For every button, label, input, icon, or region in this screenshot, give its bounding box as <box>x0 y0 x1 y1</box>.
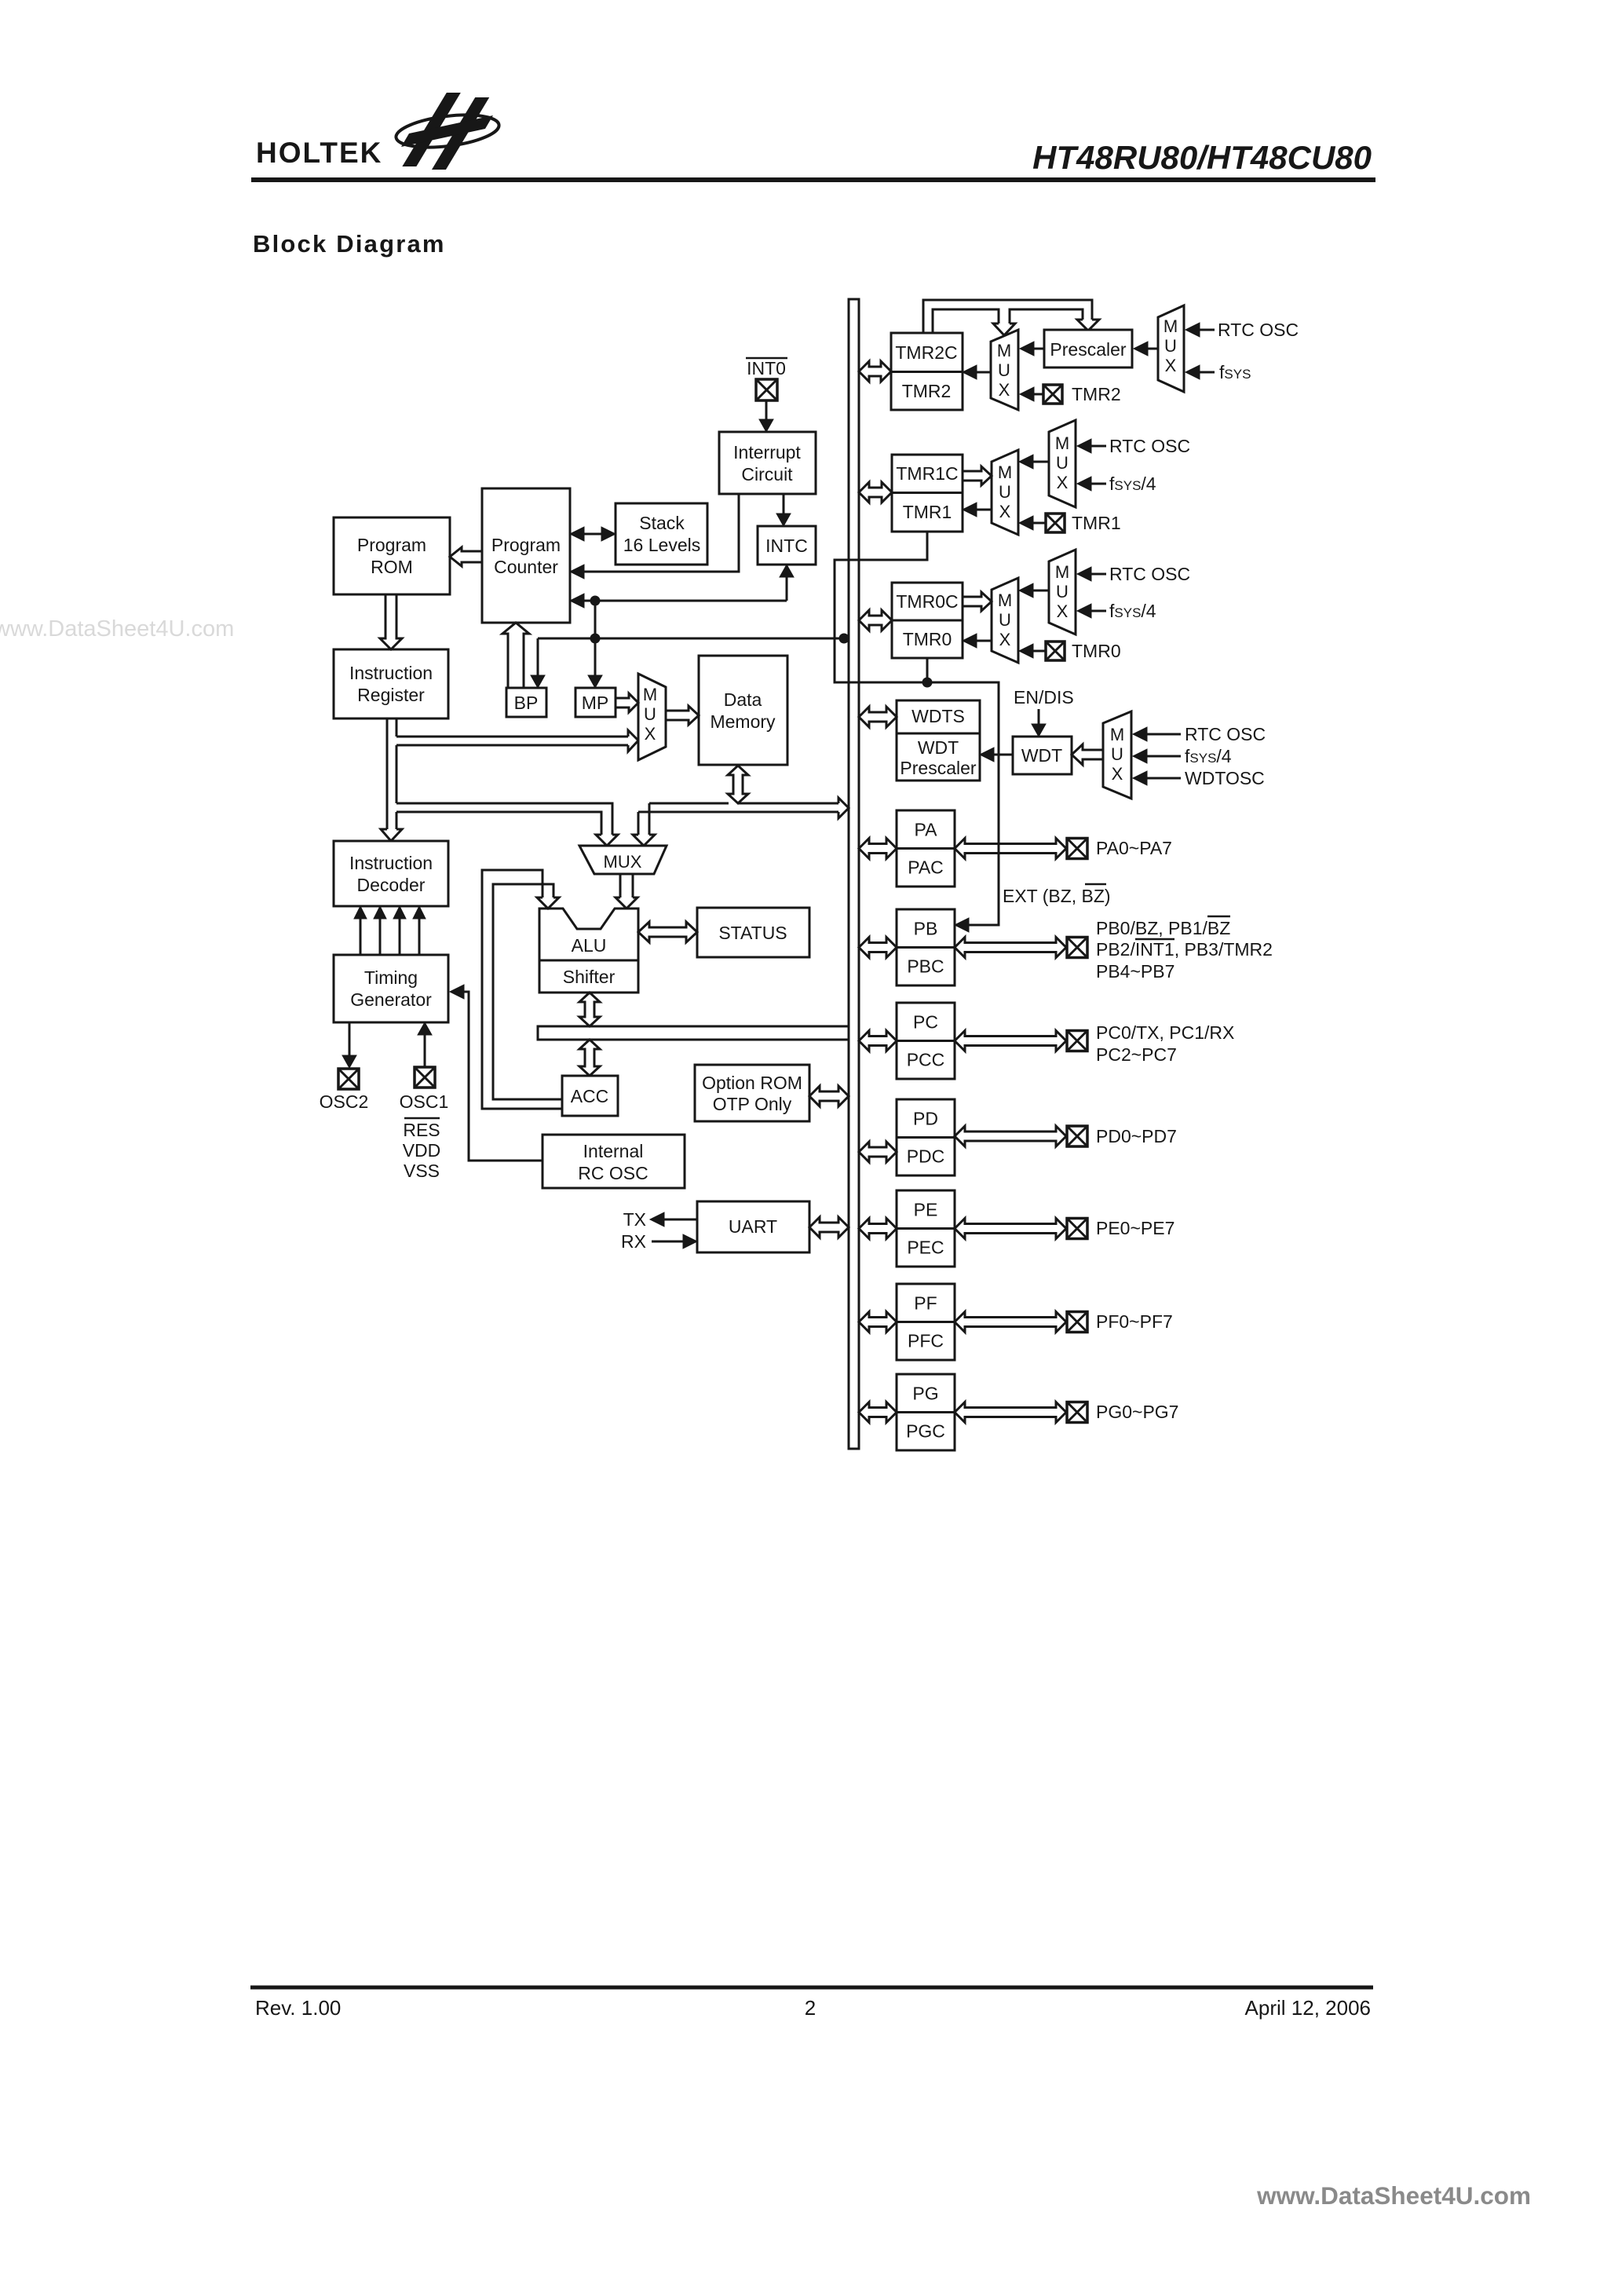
junction dot EXT <box>922 678 933 688</box>
svg-text:PC: PC <box>913 1012 938 1033</box>
pin PE0~PE7 <box>1067 1219 1087 1239</box>
svg-text:TMR0: TMR0 <box>1072 641 1121 661</box>
internal bus bar <box>538 1026 849 1040</box>
svg-text:WDT: WDT <box>918 737 959 758</box>
junction dot at bus <box>839 634 849 644</box>
svg-text:X: X <box>1112 764 1123 784</box>
svg-text:U: U <box>1111 744 1123 764</box>
block WDT <box>1013 737 1072 774</box>
svg-text:U: U <box>999 482 1011 502</box>
svg-text:OSC1: OSC1 <box>400 1091 449 1112</box>
arrow internal bus bar to ACC <box>579 1040 600 1076</box>
pin TMR2 <box>1043 385 1062 404</box>
register PB/PBC <box>897 909 955 985</box>
register TMR0C/TMR0 <box>892 583 963 658</box>
svg-text:PB2/INT1, PB3/TMR2: PB2/INT1, PB3/TMR2 <box>1096 939 1273 960</box>
input RTC OSC to timer-2 clock MUX <box>1199 329 1215 331</box>
block Prescaler <box>1044 330 1132 367</box>
svg-text:X: X <box>999 502 1011 521</box>
arrow Shifter to internal bus bar <box>579 993 600 1026</box>
arrow ALU to STATUS (bidirectional) <box>638 922 697 942</box>
bus arrow to TMR0C <box>859 610 892 631</box>
svg-text:WDTOSC: WDTOSC <box>1185 768 1265 788</box>
svg-text:RES: RES <box>403 1120 440 1140</box>
svg-text:Register: Register <box>357 685 425 705</box>
svg-text:X: X <box>645 724 656 744</box>
svg-text:Instruction: Instruction <box>349 853 433 873</box>
svg-text:16 Levels: 16 Levels <box>623 535 700 555</box>
wire buffer line to bus <box>538 601 849 638</box>
wire UART TX <box>664 1219 697 1221</box>
block Interrupt Circuit <box>719 432 816 494</box>
open arrowhead into Instruction Decoder <box>381 829 402 841</box>
svg-text:PDC: PDC <box>907 1146 945 1167</box>
svg-text:M: M <box>1164 316 1178 336</box>
block Instruction Decoder <box>334 841 448 906</box>
svg-text:Decoder: Decoder <box>357 875 426 895</box>
svg-text:www.DataSheet4U.com: www.DataSheet4U.com <box>1256 2181 1531 2210</box>
wire MUX to TMR2 <box>976 371 991 374</box>
svg-text:M: M <box>1110 725 1124 744</box>
svg-text:PEC: PEC <box>907 1238 944 1258</box>
overline PB2/INT1 <box>1135 938 1174 941</box>
system data bus (vertical double line) <box>849 299 859 1449</box>
open arrowhead ACC feedback into ALU <box>537 898 559 909</box>
header rule <box>251 177 1375 182</box>
mux U4 timer-1 clock MUX <box>1049 420 1076 507</box>
open arrowhead into Prescaler <box>1077 320 1099 331</box>
svg-text:TMR1C: TMR1C <box>896 463 958 484</box>
open arrowhead into timer-2 MUX <box>993 324 1015 335</box>
svg-text:PF0~PF7: PF0~PF7 <box>1096 1311 1173 1332</box>
svg-text:Generator: Generator <box>350 989 432 1010</box>
svg-text:fSYS/4: fSYS/4 <box>1185 746 1232 766</box>
svg-text:Rev. 1.00: Rev. 1.00 <box>255 1996 341 2020</box>
svg-text:HOLTEK: HOLTEK <box>256 137 382 169</box>
pin PD0~PD7 <box>1067 1126 1087 1146</box>
input fSYS/4 to timer-0 clock MUX <box>1091 610 1106 612</box>
mux U6 timer-0 clock MUX <box>1049 550 1076 634</box>
pin TMR0 <box>1046 642 1065 660</box>
svg-text:Stack: Stack <box>639 513 685 533</box>
svg-text:Prescaler: Prescaler <box>1050 339 1126 360</box>
pin INT0 <box>756 379 777 400</box>
svg-text:PG0~PG7: PG0~PG7 <box>1096 1402 1178 1422</box>
bus arrow to TMR1C <box>859 482 892 503</box>
svg-text:X: X <box>999 380 1010 400</box>
pin PC0~PC7 <box>1067 1031 1087 1051</box>
arrow MUX to ALU <box>620 874 633 898</box>
svg-text:PB0/BZ, PB1/BZ: PB0/BZ, PB1/BZ <box>1096 918 1230 938</box>
arrowhead EXT into PB <box>955 918 969 932</box>
wire Prescaler to MUX <box>1033 348 1044 350</box>
open arrowhead into data memory MUX <box>628 730 638 751</box>
footer rule <box>250 1986 1373 1990</box>
register PA/PAC <box>897 810 955 887</box>
wire MUX to TMR1 <box>977 509 992 511</box>
svg-text:PC0/TX, PC1/RX: PC0/TX, PC1/RX <box>1096 1022 1234 1043</box>
block Data Memory <box>699 656 787 765</box>
input RTC OSC to timer-0 clock MUX <box>1091 573 1106 576</box>
svg-text:RC OSC: RC OSC <box>578 1163 648 1183</box>
pin OSC1 <box>415 1067 435 1088</box>
arrow Data Memory to internal bus <box>728 766 748 803</box>
svg-text:2: 2 <box>805 1996 816 2020</box>
arrow TMR1C to MUX <box>963 466 992 485</box>
arrow PE to pins <box>955 1219 1066 1239</box>
svg-text:PE0~PE7: PE0~PE7 <box>1096 1218 1174 1238</box>
pin PB0~PB7 <box>1067 938 1087 958</box>
register WDTS / WDT Prescaler <box>897 700 980 781</box>
wire Timing Generator to OSC2 <box>349 1022 351 1056</box>
arrow PG to pins <box>955 1402 1066 1423</box>
svg-text:Shifter: Shifter <box>563 967 616 987</box>
svg-text:WDTS: WDTS <box>911 706 965 726</box>
junction dot MP branch <box>590 634 601 644</box>
wire to MP <box>594 638 597 677</box>
svg-text:PFC: PFC <box>908 1331 944 1351</box>
svg-text:TMR0C: TMR0C <box>896 591 958 612</box>
wire Stack to PC (bidirectional) <box>581 533 605 536</box>
svg-text:PB: PB <box>914 919 938 939</box>
svg-text:PBC: PBC <box>907 956 944 977</box>
svg-text:PAC: PAC <box>908 857 944 878</box>
arrow PA to pins <box>955 839 1066 859</box>
svg-text:TMR0: TMR0 <box>903 629 952 649</box>
register PC/PCC <box>897 1003 955 1079</box>
svg-text:www.DataSheet4U.com: www.DataSheet4U.com <box>0 616 234 642</box>
block Program ROM <box>334 517 450 594</box>
bus arrow to PC <box>859 1031 897 1051</box>
wire ACC feedback outer <box>482 870 562 1109</box>
junction dot on PC feedback <box>590 596 601 606</box>
wire IR branch to data memory MUX <box>396 737 628 745</box>
wire Interrupt Circuit to INTC <box>783 494 785 514</box>
svg-text:RTC OSC: RTC OSC <box>1218 320 1299 340</box>
input fSYS/4 to timer-1 clock MUX <box>1091 483 1106 485</box>
svg-text:Data: Data <box>724 689 762 710</box>
svg-text:U: U <box>644 704 656 724</box>
mux U1 timer-2 input MUX <box>991 330 1018 410</box>
bus arrow to PA <box>859 839 897 859</box>
svg-text:VSS: VSS <box>404 1161 440 1181</box>
wire Interrupt Circuit to PC <box>584 494 739 572</box>
svg-text:OTP Only: OTP Only <box>713 1094 792 1114</box>
wire EN/DIS to WDT <box>1038 709 1040 725</box>
svg-text:UART: UART <box>729 1216 777 1237</box>
arrow PC to Program ROM <box>450 547 482 566</box>
svg-text:Circuit: Circuit <box>741 464 793 484</box>
svg-text:EXT (BZ, BZ): EXT (BZ, BZ) <box>1003 886 1111 906</box>
svg-text:Counter: Counter <box>494 557 558 577</box>
pin TMR1 <box>1046 514 1065 532</box>
svg-text:ACC: ACC <box>571 1086 609 1106</box>
register TMR2C/TMR2 <box>891 333 963 410</box>
bus arrow to WDTS <box>859 707 897 727</box>
block STATUS <box>697 908 809 957</box>
bus arrow to PF <box>859 1312 897 1333</box>
wire TMR2C top feedback inner <box>933 309 999 333</box>
wires Timing Generator to Instruction Decoder <box>360 917 362 955</box>
arrow BP to PC <box>502 623 529 688</box>
open arrowhead data path into ALU MUX <box>633 835 655 846</box>
wire ACC feedback inner <box>493 884 562 1099</box>
svg-text:PGC: PGC <box>906 1421 945 1442</box>
svg-text:INT0: INT0 <box>747 358 786 378</box>
arrow Program ROM to Instruction Register <box>380 594 402 649</box>
arrow PF to pins <box>955 1312 1066 1333</box>
svg-text:PB4~PB7: PB4~PB7 <box>1096 961 1174 982</box>
wire IR branch to ALU MUX <box>396 803 612 835</box>
svg-text:X: X <box>1057 601 1069 621</box>
pin PA0~PA7 <box>1067 839 1087 859</box>
svg-text:PE: PE <box>914 1200 938 1220</box>
svg-text:STATUS: STATUS <box>718 923 787 943</box>
input RTC OSC to WDT clock MUX <box>1146 733 1181 736</box>
open arrowhead IR into ALU MUX <box>596 835 618 846</box>
mux U3 timer-1 input MUX <box>992 450 1018 535</box>
svg-text:M: M <box>1055 433 1069 453</box>
register PG/PGC <box>897 1374 955 1450</box>
mux U2 timer-2 clock MUX <box>1158 305 1184 392</box>
svg-text:Block Diagram: Block Diagram <box>253 230 446 258</box>
svg-text:RTC OSC: RTC OSC <box>1109 436 1190 456</box>
svg-text:PG: PG <box>912 1384 938 1404</box>
svg-text:M: M <box>997 341 1011 360</box>
block Stack 16 Levels <box>616 503 707 565</box>
svg-text:Timing: Timing <box>364 967 418 988</box>
svg-text:U: U <box>999 610 1011 630</box>
wire TMR2C top feedback outer <box>923 300 1092 333</box>
svg-text:RTC OSC: RTC OSC <box>1109 564 1190 584</box>
svg-text:fSYS: fSYS <box>1219 362 1251 382</box>
svg-text:Instruction: Instruction <box>349 663 433 683</box>
svg-text:TMR1: TMR1 <box>1072 513 1121 533</box>
arrow MP to MUX <box>616 693 638 712</box>
wire MUX to TMR0 <box>977 640 992 642</box>
register ACC <box>562 1076 618 1116</box>
mux U8 ALU operand MUX <box>579 846 667 874</box>
register BP <box>506 688 546 717</box>
svg-text:ROM: ROM <box>371 557 413 577</box>
svg-text:M: M <box>1055 562 1069 582</box>
bus arrow to PD <box>859 1142 897 1162</box>
input RTC OSC to timer-1 clock MUX <box>1091 445 1106 448</box>
svg-text:TMR2: TMR2 <box>1072 384 1121 404</box>
wire UART RX <box>652 1241 683 1243</box>
mux U5 timer-0 input MUX <box>992 578 1018 663</box>
svg-text:TMR2C: TMR2C <box>895 342 957 363</box>
bus arrow to TMR2C <box>859 361 891 382</box>
svg-text:U: U <box>1164 336 1177 356</box>
wire feedback branch to prescaler <box>1010 309 1083 324</box>
pin PF0~PF7 <box>1067 1312 1087 1333</box>
block Option ROM OTP Only <box>695 1065 809 1121</box>
svg-text:RTC OSC: RTC OSC <box>1185 724 1266 744</box>
svg-text:TX: TX <box>623 1209 646 1230</box>
register TMR1C/TMR1 <box>892 455 963 532</box>
wire OSC1 to Timing Generator <box>424 1033 426 1067</box>
svg-text:OSC2: OSC2 <box>320 1091 369 1112</box>
svg-text:Program: Program <box>491 535 561 555</box>
svg-text:PD: PD <box>913 1109 938 1129</box>
Holtek logo symbol <box>394 93 501 170</box>
mux U9 WDT clock MUX <box>1103 711 1131 799</box>
svg-text:Internal: Internal <box>583 1141 644 1161</box>
register PF/PFC <box>897 1284 955 1360</box>
wire Internal RC OSC to Timing Generator <box>464 992 542 1161</box>
svg-text:Interrupt: Interrupt <box>733 442 801 462</box>
pin PG0~PG7 <box>1067 1402 1087 1423</box>
block Instruction Register <box>334 649 448 718</box>
open arrowhead data path into bus <box>838 798 849 818</box>
block Program Counter <box>482 488 570 623</box>
svg-text:INTC: INTC <box>765 536 808 556</box>
svg-text:PA: PA <box>915 820 938 840</box>
wire TMR1 to EXT buzzer <box>835 532 999 925</box>
svg-text:MP: MP <box>582 693 609 713</box>
svg-text:PCC: PCC <box>907 1050 945 1070</box>
bus arrow to PG <box>859 1402 897 1423</box>
svg-text:EN/DIS: EN/DIS <box>1014 687 1074 707</box>
svg-text:fSYS/4: fSYS/4 <box>1109 473 1156 494</box>
svg-text:U: U <box>998 360 1010 380</box>
svg-text:PD0~PD7: PD0~PD7 <box>1096 1126 1177 1146</box>
svg-text:X: X <box>1057 473 1069 492</box>
arrow TMR0C to MUX <box>963 592 992 611</box>
wire INTC feedback to PC <box>595 600 787 602</box>
svg-text:April 12, 2006: April 12, 2006 <box>1245 1996 1371 2020</box>
svg-text:X: X <box>1165 356 1177 375</box>
arrow MUX to Data Memory <box>666 706 699 725</box>
arrow PD to pins <box>955 1126 1066 1146</box>
register PE/PEC <box>897 1190 955 1267</box>
register MP <box>575 688 616 717</box>
svg-text:M: M <box>643 685 657 704</box>
svg-text:HT48RU80/HT48CU80: HT48RU80/HT48CU80 <box>1032 139 1372 176</box>
svg-text:PA0~PA7: PA0~PA7 <box>1096 838 1172 858</box>
svg-text:RX: RX <box>621 1231 646 1252</box>
svg-text:TMR1: TMR1 <box>903 502 952 522</box>
pin OSC2 <box>338 1069 359 1089</box>
overline PB1/BZ <box>1207 916 1230 918</box>
wire internal data path to bus <box>638 803 838 835</box>
wire TMR0 bottom branch <box>926 658 929 682</box>
bus arrow to PE <box>859 1219 897 1239</box>
arrow Option ROM to bus <box>809 1086 849 1106</box>
arrow PB to pins <box>955 938 1066 958</box>
wire to BP <box>537 638 539 677</box>
svg-text:U: U <box>1056 582 1069 601</box>
wire INT0 to interrupt circuit <box>765 400 768 420</box>
svg-text:PF: PF <box>914 1293 937 1314</box>
block ALU with Shifter <box>539 909 638 993</box>
svg-text:VDD: VDD <box>403 1140 441 1161</box>
svg-text:BP: BP <box>514 693 539 713</box>
svg-text:M: M <box>998 590 1012 610</box>
svg-text:Option ROM: Option ROM <box>702 1073 802 1093</box>
block Timing Generator <box>334 955 448 1022</box>
register PD/PDC <box>897 1099 955 1175</box>
mux U7 data memory address MUX <box>638 674 666 760</box>
svg-text:M: M <box>998 462 1012 482</box>
svg-text:MUX: MUX <box>604 852 642 872</box>
wire WDT to WDT Prescaler <box>994 754 1013 756</box>
svg-text:WDT: WDT <box>1021 745 1062 766</box>
svg-text:PC2~PC7: PC2~PC7 <box>1096 1044 1177 1065</box>
arrow UART to bus <box>809 1217 849 1238</box>
wire clock MUX to Prescaler <box>1146 348 1158 350</box>
svg-text:U: U <box>1056 453 1069 473</box>
svg-text:Program: Program <box>357 535 426 555</box>
block INTC <box>758 526 816 565</box>
block UART <box>697 1201 809 1252</box>
svg-text:fSYS/4: fSYS/4 <box>1109 601 1156 621</box>
input fSYS to timer-2 clock MUX <box>1199 371 1215 374</box>
arrow PC to pins <box>955 1031 1066 1051</box>
svg-text:X: X <box>999 630 1011 649</box>
input WDTOSC to WDT clock MUX <box>1146 777 1181 780</box>
block Internal RC OSC <box>542 1135 685 1188</box>
svg-text:Prescaler: Prescaler <box>900 758 976 778</box>
arrow WDT clock MUX to WDT <box>1072 744 1103 765</box>
input fSYS/4 to WDT clock MUX <box>1146 755 1181 758</box>
svg-text:Memory: Memory <box>710 711 776 732</box>
wire timer-1 clock MUX to MUX <box>1032 461 1049 463</box>
wire Instruction Register to Instruction Decoder <box>387 718 396 829</box>
bus arrow to PB <box>859 938 897 958</box>
svg-text:TMR2: TMR2 <box>902 381 952 401</box>
svg-text:ALU: ALU <box>572 935 607 956</box>
wire timer-0 clock MUX to MUX <box>1032 590 1049 592</box>
